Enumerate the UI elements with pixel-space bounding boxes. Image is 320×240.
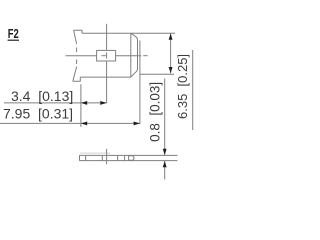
svg-text:6.35 [0.25]: 6.35 [0.25] <box>175 54 190 119</box>
svg-text:3.4 [0.13]: 3.4 [0.13] <box>11 88 73 104</box>
svg-text:0.8 [0.03]: 0.8 [0.03] <box>147 82 162 142</box>
svg-text:F2: F2 <box>8 27 19 41</box>
svg-text:7.95 [0.31]: 7.95 [0.31] <box>3 105 73 121</box>
